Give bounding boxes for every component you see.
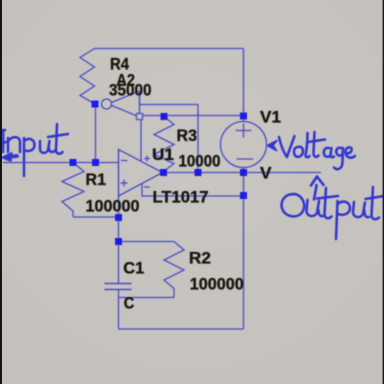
wire C1 bottom lead	[118, 290, 120, 330]
node R4/A2	[92, 101, 99, 108]
wire bottom horizontal	[119, 328, 244, 330]
handwritten input arrow	[7, 156, 17, 157]
wire top horizontal	[95, 48, 244, 50]
op-amp inverting input minus	[121, 160, 128, 162]
wire C1 top lead	[118, 242, 120, 284]
wire A2 terminal up	[139, 91, 141, 105]
wire R1 bottom	[73, 216, 119, 218]
svg-text:LT1017: LT1017	[153, 188, 209, 207]
op-amp V+ supply plus	[144, 156, 150, 162]
op-amp V- supply minus	[144, 186, 150, 188]
handwritten Output t	[317, 188, 338, 218]
handwritten Voltage a	[324, 148, 334, 158]
node R3 top	[161, 113, 168, 120]
handwritten Output u2	[353, 202, 369, 217]
svg-text:C: C	[124, 294, 135, 313]
svg-text:R2: R2	[189, 249, 211, 268]
resistor R2	[164, 242, 184, 298]
V1 minus	[237, 158, 254, 160]
resistor R3	[154, 117, 174, 172]
wire R2 bottom	[119, 297, 175, 299]
wire node A down to input line	[95, 104, 97, 163]
svg-text:C1: C1	[123, 259, 144, 278]
wire right vertical V to bottom	[243, 168, 245, 330]
node squares	[70, 101, 248, 246]
handwritten Input u	[40, 141, 55, 153]
wire supply rail horizontal	[141, 115, 244, 117]
terminal square A2	[137, 114, 143, 120]
wire right vertical to V1 top	[243, 49, 245, 122]
node V1 bottom	[240, 169, 247, 176]
handwritten Input n	[8, 137, 20, 152]
handwritten Voltage l	[306, 133, 310, 157]
node C1 top	[115, 238, 122, 245]
node input branch	[92, 159, 99, 166]
handwritten Input p	[24, 138, 35, 176]
wire op-amp left edge extension	[118, 150, 120, 242]
op-amp non-inverting input plus	[121, 180, 128, 187]
handwritten Voltage V	[279, 136, 295, 157]
handwritten Output O	[282, 194, 305, 216]
handwritten Voltage e	[346, 147, 356, 157]
handwritten Voltage t	[308, 132, 325, 157]
svg-text:U1: U1	[152, 145, 174, 164]
svg-text:10000: 10000	[179, 152, 221, 171]
svg-text:100000: 100000	[190, 275, 244, 294]
capacitor C1	[105, 284, 132, 290]
resistor R4	[80, 49, 95, 105]
amplifier A2 circle	[102, 99, 112, 109]
resistor R1	[62, 163, 84, 218]
node output mid	[195, 169, 202, 176]
handwritten Voltage o	[294, 147, 303, 157]
voltage source V1 circle	[221, 122, 267, 168]
handwriting annotations	[0, 124, 384, 239]
svg-text:V: V	[260, 164, 272, 183]
svg-text:35000: 35000	[109, 81, 152, 100]
svg-text:R1: R1	[86, 170, 107, 189]
node R1/C1	[115, 214, 122, 221]
node V- rail	[240, 192, 247, 199]
handwritten Input t	[48, 124, 68, 154]
amplifier A2 triangle	[112, 91, 140, 117]
handwritten Output p	[336, 201, 350, 239]
wire V- supply drop	[142, 184, 244, 196]
handwritten Output u	[307, 200, 324, 216]
svg-text:100000: 100000	[86, 197, 140, 216]
node op-amp output	[160, 169, 167, 176]
op-amp U1 triangle	[119, 150, 163, 197]
node R1 top	[70, 159, 77, 166]
right video bar	[383, 0, 384, 384]
svg-text:R3: R3	[177, 126, 198, 145]
handwritten Output t2	[366, 187, 384, 219]
wire output line	[163, 172, 322, 174]
wire V+ supply drop	[140, 116, 142, 162]
handwritten up arrow	[314, 185, 317, 200]
node V1 top	[240, 113, 247, 120]
V1 plus	[236, 124, 252, 138]
wire A2 to output column	[140, 105, 199, 173]
handwritten arrow at V1	[268, 141, 278, 151]
handwritten Input I	[0, 130, 6, 152]
svg-text:V1: V1	[260, 108, 281, 127]
left video bar	[0, 0, 2, 384]
wire input line	[3, 162, 119, 164]
wire R2 top	[119, 241, 175, 243]
handwritten Voltage g	[334, 148, 343, 169]
